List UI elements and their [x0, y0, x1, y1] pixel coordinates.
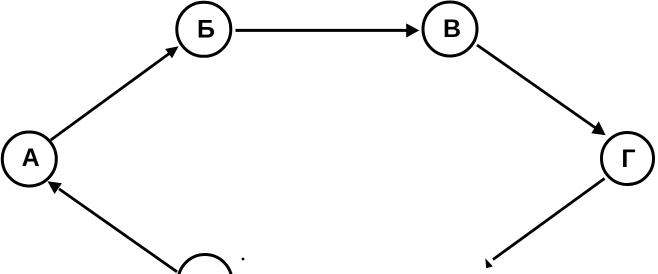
svg-text:Г: Г [621, 145, 635, 173]
svg-text:Б: Б [197, 16, 215, 44]
node D (partial circle at bottom, clipped by image edge) [178, 255, 232, 274]
node A (circle А) [2, 132, 56, 186]
wire D to A [48, 181, 178, 271]
wire B to V [236, 23, 420, 37]
wire V to G [477, 45, 606, 135]
node G (circle Г) [602, 133, 654, 185]
wire G to bottom arrow [485, 179, 604, 269]
node V (circle В) [423, 2, 477, 56]
node B (circle Б) [177, 2, 231, 56]
svg-text:В: В [443, 15, 461, 43]
wire A to B [51, 46, 179, 140]
svg-text:А: А [22, 144, 40, 172]
stray dot mark [242, 258, 245, 261]
